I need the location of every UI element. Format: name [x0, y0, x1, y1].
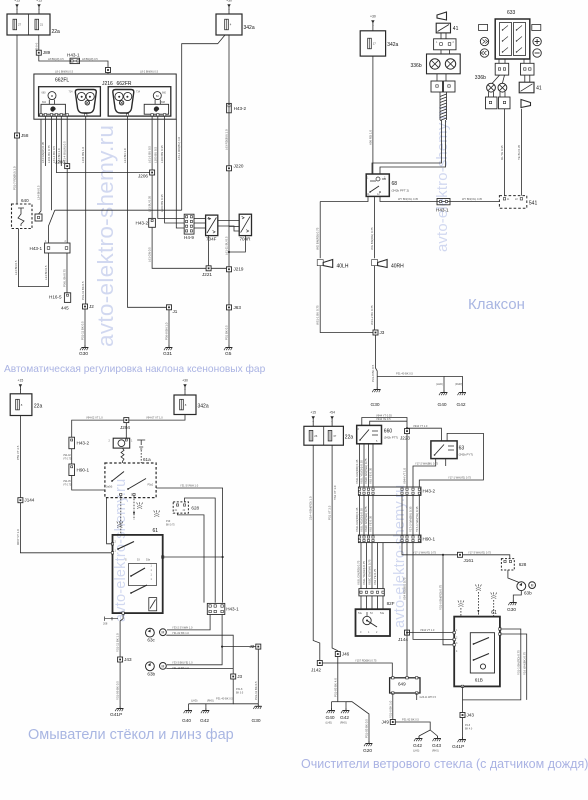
pin [317, 260, 323, 266]
connector strip 82F [359, 589, 384, 596]
connector strip H90-1 (wipers) [358, 535, 421, 543]
pin [190, 216, 192, 218]
pin [382, 591, 384, 593]
pin [448, 85, 450, 87]
svg-text:(LHS): (LHS) [413, 750, 419, 753]
horn unit 41 (left) [436, 23, 450, 33]
pin [111, 543, 113, 545]
svg-text:(342b PFT 2): (342b PFT 2) [392, 189, 410, 193]
wire 82F strip to switch [377, 596, 379, 609]
column switch unit 61 [113, 535, 163, 613]
pin [503, 101, 505, 103]
svg-text:P31 VT 2.5: P31 VT 2.5 [328, 505, 332, 520]
svg-text:J63: J63 [234, 305, 242, 310]
svg-text:P31-05 BK 0.5: P31-05 BK 0.5 [365, 719, 369, 738]
svg-text:YE BU 0.35: YE BU 0.35 [517, 145, 521, 160]
wire 40LH to J3 [320, 266, 375, 333]
svg-text:664: 664 [42, 101, 47, 104]
pin [416, 692, 418, 694]
pin [448, 43, 451, 46]
svg-text:L63-1 RD(BU) 1.0: L63-1 RD(BU) 1.0 [177, 136, 181, 160]
svg-text:V944 YE 0.5: V944 YE 0.5 [376, 417, 391, 421]
svg-text:J144: J144 [24, 498, 34, 503]
wire J3 to ground G30 [376, 335, 378, 387]
svg-text:L8-1 BN(W) 0.5: L8-1 BN(W) 0.5 [55, 70, 74, 74]
connector J144 [18, 498, 23, 503]
svg-text:(LHD): (LHD) [191, 700, 198, 703]
pin [186, 216, 188, 218]
svg-text:Y17-1 WH(YE) 0.35: Y17-1 WH(YE) 0.35 [415, 506, 419, 532]
wire [372, 25, 374, 31]
svg-text:VT 0.75: VT 0.75 [63, 457, 72, 460]
wire [488, 92, 490, 97]
horn speaker symbol [437, 12, 447, 20]
pin [412, 492, 414, 494]
headlamp assembly box [34, 74, 176, 119]
svg-text:L161 BU 0.75: L161 BU 0.75 [47, 145, 51, 163]
svg-text:Y33-2 SY/WH 1.0: Y33-2 SY/WH 1.0 [172, 626, 193, 630]
connector J219 [227, 267, 232, 272]
svg-text:L61-11 BU 0.5: L61-11 BU 0.5 [225, 236, 229, 255]
valve unit above 61a [113, 438, 130, 448]
svg-text:V944 YT 1.0: V944 YT 1.0 [413, 424, 428, 428]
pin [372, 492, 374, 494]
wire 628 to H43-1 pin1 [178, 513, 205, 603]
washer pump 649 [390, 678, 420, 693]
pin [372, 488, 374, 490]
wire J3 to ground bar [189, 679, 234, 704]
washer pump 63c [146, 628, 167, 637]
connector J2 [83, 304, 88, 309]
pin [401, 488, 403, 490]
power supply +15 [36, 0, 42, 10]
svg-text:21A-4 BN(RD) 1.0: 21A-4 BN(RD) 1.0 [309, 496, 313, 520]
svg-text:P31-92 BK 0.5: P31-92 BK 0.5 [402, 718, 419, 722]
connector J161 [458, 552, 463, 557]
svg-text:J204: J204 [120, 425, 130, 430]
fusebox 22a (washers) [10, 394, 32, 416]
svg-text:G40: G40 [182, 718, 191, 724]
svg-text:41: 41 [453, 26, 459, 32]
svg-text:H43-2: H43-2 [77, 441, 90, 446]
steering wheel switch 633 [495, 19, 530, 59]
pin [37, 216, 39, 218]
connector J221 [206, 266, 211, 271]
wire fuse 37 to ground bar [332, 445, 338, 702]
svg-text:208: 208 [103, 622, 108, 626]
button cap right [532, 25, 541, 31]
svg-text:M: M [161, 664, 164, 668]
svg-text:V62L GN(RD) 0.35: V62L GN(RD) 0.35 [355, 507, 359, 532]
wire 40RH to J3 [374, 266, 376, 333]
wire [529, 59, 531, 63]
svg-text:V62L YE(GN) 0.35: V62L YE(GN) 0.35 [360, 460, 364, 484]
svg-text:G30: G30 [79, 351, 88, 357]
wire relay 660 rail 2 [370, 421, 407, 425]
connector J43 [118, 657, 123, 662]
svg-text:G40: G40 [438, 402, 447, 408]
svg-text:61B: 61B [475, 678, 483, 683]
wire H90-1 to 82F [377, 543, 379, 589]
svg-text:Y17-3 WH(YE) 0.75: Y17-3 WH(YE) 0.75 [468, 550, 491, 554]
connector H16-5 [64, 293, 70, 303]
svg-text:668: 668 [161, 101, 166, 104]
svg-text:J223: J223 [400, 436, 410, 441]
ground G42 G42 [458, 390, 466, 395]
svg-text:V62 YE 0.75: V62 YE 0.75 [373, 568, 377, 585]
connector bracket 208 [105, 617, 118, 621]
fuse element [16, 399, 20, 410]
svg-text:J49: J49 [382, 720, 390, 725]
pin [60, 114, 62, 116]
svg-text:82F: 82F [387, 601, 395, 606]
connector J204 [124, 418, 129, 423]
wire 61a to H43-1 pin [156, 488, 223, 603]
pin [67, 294, 69, 296]
svg-text:Y31-99 BK 0.5: Y31-99 BK 0.5 [116, 681, 120, 700]
junction [406, 427, 408, 429]
wire 633 to 41 box 2 [529, 75, 531, 82]
wire [436, 74, 438, 81]
svg-text:Y33-3 BK(YE) 1.0: Y33-3 BK(YE) 1.0 [172, 660, 193, 664]
svg-text:26: 26 [314, 434, 318, 438]
wire to 541 pin 11 [504, 109, 506, 196]
horn coil symbol [430, 59, 440, 69]
wire J2 to ground G30 [84, 307, 86, 346]
wire [159, 100, 161, 105]
svg-text:Автоматическая регулировка нак: Автоматическая регулировка наклона ксено… [4, 363, 266, 375]
svg-text:40LH: 40LH [337, 264, 349, 270]
wire J223 down to 649 [406, 543, 408, 678]
pin [461, 685, 463, 687]
connector H43-2 (mid) [149, 218, 156, 227]
wire to 541 pin 22 [520, 109, 522, 196]
button cap left [479, 25, 488, 31]
wire [19, 389, 21, 394]
wire box pin to 640 aux [39, 119, 42, 214]
pin [418, 536, 420, 538]
pin [453, 631, 455, 633]
wire 61 right pin to riser [163, 556, 223, 558]
pin [221, 605, 223, 607]
level sensor 640 [12, 204, 33, 229]
svg-text:H43-1: H43-1 [226, 607, 239, 612]
wire [445, 33, 447, 39]
wire relay 660 to H43-2 pin 2 [363, 444, 365, 487]
pin [221, 610, 223, 612]
pin [392, 677, 394, 679]
pin [66, 114, 68, 116]
power supply +30 [370, 15, 376, 27]
switch contacts inside 61a [112, 472, 124, 482]
svg-text:63b: 63b [524, 591, 532, 596]
pin [71, 466, 73, 468]
junction [221, 646, 223, 648]
svg-text:G31: G31 [163, 351, 172, 357]
wire 82F strip to switch [366, 596, 368, 609]
svg-text:WG BN(RD) 0.75: WG BN(RD) 0.75 [316, 227, 320, 250]
wire [440, 50, 442, 54]
wire H90-1 to 82F [360, 543, 362, 589]
pin [55, 114, 57, 116]
pin [503, 68, 505, 70]
relay 63 [431, 441, 457, 459]
connector J142 [317, 661, 322, 666]
connector 633 left [495, 63, 509, 75]
power supply +15 [310, 411, 316, 423]
wire relay 660 to J223 [362, 418, 407, 432]
dashed spray wire [460, 608, 462, 617]
svg-text:G5: G5 [225, 351, 232, 357]
svg-text:P36L BN 0.75: P36L BN 0.75 [63, 269, 67, 287]
headlamp 662FL [39, 87, 101, 116]
connector J144 [405, 630, 410, 635]
svg-text:H43-1: H43-1 [436, 208, 449, 213]
ground G42 G42 [414, 736, 422, 741]
connector J2 [256, 644, 261, 649]
pin [363, 488, 365, 490]
ground G30 G30 [508, 600, 516, 605]
washer spray icon [475, 584, 481, 590]
pin [499, 633, 501, 635]
pin [122, 612, 124, 614]
power supply +15 [18, 379, 24, 391]
svg-text:BK 4.0: BK 4.0 [465, 727, 473, 730]
washer switch 61a [105, 463, 156, 498]
fuse element [368, 38, 372, 49]
svg-text:(342b PYT): (342b PYT) [459, 453, 473, 457]
svg-text:L61 BU 0.35: L61 BU 0.35 [148, 196, 152, 212]
pin [509, 560, 511, 562]
svg-text:541: 541 [529, 201, 538, 207]
wire via J206 to H43-2 [151, 116, 153, 218]
wire H43-2 to H90-1 [372, 495, 374, 535]
svg-text:61: 61 [491, 610, 497, 616]
svg-text:704F: 704F [206, 237, 217, 242]
pin [372, 536, 374, 538]
horn speaker symbol [378, 260, 388, 268]
svg-text:Очистители ветрового стекла (с: Очистители ветрового стекла (с датчиком … [301, 757, 588, 771]
pin [214, 610, 216, 612]
inner unit 61B [470, 633, 494, 673]
wire rail corner to H43-1 [49, 210, 55, 243]
svg-text:(342b PTT): (342b PTT) [384, 436, 398, 440]
wire L64 BN [60, 116, 62, 166]
svg-text:V62C GN(WH) 0.75: V62C GN(WH) 0.75 [364, 458, 368, 484]
wire [493, 92, 495, 97]
svg-text:J58: J58 [21, 133, 29, 138]
pin [186, 220, 188, 222]
wire [499, 92, 501, 97]
wire to ground G20 [346, 702, 369, 741]
svg-text:P31-11 BK 0.5: P31-11 BK 0.5 [81, 281, 85, 300]
wire [440, 33, 442, 39]
ground bar [332, 701, 347, 703]
pin [162, 556, 164, 558]
svg-text:628: 628 [519, 562, 527, 567]
svg-text:Y31-02 BK 1.0: Y31-02 BK 1.0 [172, 631, 189, 635]
svg-text:L103 BU 0.5: L103 BU 0.5 [153, 147, 157, 163]
wire J161 rail to motor 61 [443, 555, 454, 645]
svg-text:Y17-2 WH(BK) 0.75: Y17-2 WH(BK) 0.75 [415, 462, 438, 466]
wire via J203 to H43-1 [66, 116, 68, 243]
svg-text:+30: +30 [370, 15, 376, 19]
wire [194, 218, 206, 220]
svg-text:336b: 336b [411, 63, 422, 69]
wire relay 68 to connector 541 [380, 196, 499, 201]
svg-text:V94-07 VT 1.0: V94-07 VT 1.0 [146, 415, 163, 419]
svg-text:J43: J43 [467, 713, 475, 718]
pin [367, 488, 369, 490]
svg-text:V944 VT 1.0: V944 VT 1.0 [403, 468, 407, 484]
connector J49 [390, 720, 395, 725]
svg-text:J43: J43 [124, 657, 132, 662]
svg-text:G20: G20 [363, 748, 372, 754]
svg-text:L24 BN 0.5: L24 BN 0.5 [14, 260, 18, 275]
svg-text:V62L YE(GN) 0.75: V62L YE(GN) 0.75 [362, 561, 366, 585]
svg-text:22a: 22a [34, 404, 43, 410]
ground G31 G31 [164, 345, 172, 350]
svg-text:336b: 336b [475, 75, 486, 81]
wire relay 660 to H43-2 pin 1 [359, 444, 361, 487]
svg-text:40RH: 40RH [391, 264, 404, 270]
svg-text:G42: G42 [457, 402, 466, 408]
svg-text:(LHD): (LHD) [326, 722, 333, 725]
wire H90-1 to 82F [366, 543, 368, 589]
wire relay 660 to H43-2 pin 3 [368, 444, 370, 487]
wire J204 to pump valve [125, 423, 127, 439]
wire relay 63 to H43-2 pin [413, 459, 436, 487]
svg-text:63b: 63b [147, 671, 155, 676]
svg-text:avto-elektro-shemy.ru: avto-elektro-shemy.ru [93, 125, 118, 347]
wire 704F to J221 [208, 236, 210, 269]
pin [436, 85, 438, 87]
svg-text:P31-40 BK 0.5: P31-40 BK 0.5 [396, 372, 413, 376]
wire 704F to 704R lower [218, 226, 239, 231]
connector H43-2 (washers) [69, 437, 75, 449]
svg-text:H16-5: H16-5 [49, 295, 62, 300]
junction [222, 556, 224, 558]
svg-text:WY BN(OG) 0.35: WY BN(OG) 0.35 [462, 197, 483, 201]
connector J43 [460, 713, 465, 718]
svg-text:(RHD): (RHD) [207, 700, 214, 703]
svg-text:J142: J142 [311, 668, 321, 673]
svg-text:22a: 22a [345, 435, 354, 441]
svg-text:53a: 53a [380, 612, 385, 615]
wire branch to ground G40 [377, 377, 444, 391]
svg-text:Y31-11 BK 1.0: Y31-11 BK 1.0 [116, 633, 120, 652]
svg-text:+15: +15 [310, 411, 316, 415]
svg-text:Y17-1 WH(YE) 0.75: Y17-1 WH(YE) 0.75 [448, 476, 471, 480]
wire branch to ground G42 [444, 377, 463, 391]
wire P31-7 from fuse 27 to sensor 640 [16, 35, 18, 204]
svg-text:G26-11 WH 0.5: G26-11 WH 0.5 [420, 696, 437, 699]
pin [363, 540, 365, 542]
svg-text:V62C GN(WH) 0.75: V62C GN(WH) 0.75 [364, 506, 368, 532]
pin [418, 540, 420, 542]
dashed wire probe to 61a [140, 450, 142, 463]
headlamp 662FR [108, 87, 171, 116]
pin [412, 540, 414, 542]
svg-text:649: 649 [398, 682, 406, 687]
contacts inside 61 [474, 638, 490, 645]
wire 61a to 61 pin 2 [107, 498, 113, 544]
horn speaker symbol [323, 260, 333, 268]
wire 61 to ground G41P [120, 614, 123, 706]
wire 82F strip to switch [371, 596, 373, 609]
svg-text:V62L YE(GN) 0.35: V62L YE(GN) 0.35 [360, 508, 364, 532]
pin [190, 220, 192, 222]
wire [331, 421, 333, 426]
svg-text:(RHD): (RHD) [340, 722, 347, 725]
pin [363, 536, 365, 538]
svg-text:68: 68 [392, 181, 398, 187]
svg-text:avto-elektro-shemy.ru: avto-elektro-shemy.ru [435, 106, 451, 252]
connector H90-1 (washers) [69, 464, 75, 476]
pin [71, 60, 73, 62]
wire [38, 9, 40, 14]
svg-text:P31-11 BK 0.5: P31-11 BK 0.5 [254, 681, 258, 700]
pin [376, 591, 378, 593]
svg-text:J161: J161 [464, 558, 474, 563]
svg-text:V62L GN(RD) 0.75: V62L GN(RD) 0.75 [357, 560, 361, 585]
wire L64 GN(W) [45, 116, 47, 166]
ground G43 G43 [433, 736, 441, 741]
pin [126, 114, 128, 116]
wire L24 to J1 [128, 116, 170, 307]
arrow on dashed wire [133, 512, 135, 516]
svg-text:V944 VT 1.0: V944 VT 1.0 [420, 628, 435, 632]
fusebox 22a (wipers) [304, 426, 344, 445]
wire [449, 50, 451, 54]
svg-text:P31-40 BK 0.5: P31-40 BK 0.5 [216, 697, 233, 701]
svg-text:L8-2 BN(W) 0.5: L8-2 BN(W) 0.5 [140, 70, 159, 74]
wire cable to relay 68 pin 1 [372, 120, 442, 174]
wire H43-1 to sensor 640 [18, 229, 48, 287]
svg-text:G30: G30 [371, 402, 380, 408]
pin [372, 540, 374, 542]
wire 61 pin to ground path [463, 629, 521, 700]
svg-text:G40: G40 [326, 715, 335, 721]
wire rail down to 40LH [319, 202, 321, 259]
wire pump to ground G30 [513, 591, 521, 600]
svg-text:662FL: 662FL [55, 78, 69, 84]
wire [498, 59, 500, 63]
connector J89 [36, 50, 41, 55]
wire H43-2 to H90-1 [359, 495, 361, 535]
pin [392, 692, 394, 694]
svg-text:L103 BN 0.35: L103 BN 0.35 [160, 145, 164, 163]
svg-text:P31-8 BK 0.5: P31-8 BK 0.5 [371, 364, 375, 382]
svg-text:63c: 63c [147, 638, 155, 643]
wire to J206 [56, 116, 152, 173]
arrow into 61 [477, 610, 479, 614]
connector H43-1 (mid) [45, 243, 70, 253]
button + symbol [533, 37, 541, 45]
junction [442, 554, 444, 556]
wire [504, 59, 506, 63]
pin [439, 200, 441, 202]
svg-text:V62 YE 0.35: V62 YE 0.35 [369, 467, 373, 484]
svg-text:Y17-1 WH(YE) 0.75: Y17-1 WH(YE) 0.75 [413, 550, 436, 554]
svg-text:A06 RD 1.0: A06 RD 1.0 [368, 130, 372, 145]
pin [406, 492, 408, 494]
wire 61 pin 2 to ground path [500, 634, 527, 700]
ballast unit 704F [206, 215, 218, 236]
pin [445, 200, 447, 202]
svg-text:H90-1: H90-1 [77, 468, 90, 473]
svg-text:G42: G42 [340, 715, 349, 721]
